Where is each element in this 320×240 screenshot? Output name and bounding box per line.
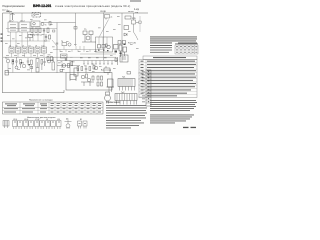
diode D1 bbox=[124, 33, 127, 36]
IF can L5 bbox=[9, 45, 14, 53]
wire vertical bus x70 bbox=[69, 60, 71, 81]
IF can L7 bbox=[22, 45, 27, 53]
page mark bbox=[183, 127, 189, 128]
right column table title bar bbox=[143, 56, 197, 60]
wire vertical bus x122 bbox=[121, 13, 123, 62]
svg-text:Радиоприёмники: Радиоприёмники bbox=[3, 4, 26, 8]
wire horizontal y41 bbox=[3, 40, 50, 42]
right column paragraph 3 bbox=[150, 115, 194, 124]
right column small table grid bbox=[175, 44, 198, 55]
header smudge bbox=[130, 0, 141, 1]
wire horizontal y65 bbox=[57, 65, 80, 67]
svg-text:Т4: Т4 bbox=[61, 41, 63, 43]
right column text block 1 bbox=[150, 37, 197, 44]
svg-text:Т1: Т1 bbox=[45, 25, 47, 27]
wire horizontal y72 bbox=[5, 72, 66, 74]
wire slant bbox=[52, 40, 57, 50]
resistor R8 bbox=[30, 60, 33, 69]
IF can L6 bbox=[16, 45, 21, 53]
antenna socket cluster bbox=[105, 15, 113, 20]
svg-text:Т2: Т2 bbox=[5, 58, 7, 60]
svg-text:R17 C35: R17 C35 bbox=[128, 43, 137, 45]
transistor T5 stage cluster bbox=[82, 29, 96, 42]
transistor T9 can bbox=[107, 79, 115, 92]
cluster x116 y57 bbox=[115, 57, 118, 65]
wire can drops bbox=[12, 53, 45, 57]
resistor network R25-R27 bbox=[97, 76, 103, 86]
IF can L8 bbox=[29, 45, 34, 53]
resistor R9 bbox=[41, 60, 43, 71]
svg-text:Вых. каскад: Вых. каскад bbox=[101, 70, 112, 72]
detector cluster bbox=[114, 44, 127, 58]
svg-text:Примечания:: Примечания: bbox=[106, 101, 121, 104]
wire risers to frame bbox=[10, 13, 22, 22]
wire horizontal y22 bbox=[41, 22, 76, 24]
connector box X2 bbox=[5, 71, 9, 76]
svg-text:1-му: 1-му bbox=[134, 8, 140, 11]
cluster T4 components bbox=[60, 58, 73, 72]
svg-text:кв: кв bbox=[111, 17, 113, 19]
wire vertical x133 bbox=[134, 13, 139, 40]
electrolytic C20 bbox=[74, 68, 78, 81]
wire vertical bus x103 bbox=[103, 13, 105, 60]
capacitor C33 bbox=[124, 26, 129, 30]
wire horizontal bus y57 bbox=[3, 56, 116, 58]
capacitor C42 bbox=[70, 75, 76, 80]
resistor R6 bbox=[12, 60, 14, 73]
electrolytic C10 bbox=[15, 62, 30, 69]
svg-text:Намоточные данные катушек: Намоточные данные катушек bbox=[27, 117, 55, 119]
switch fragment B1 bbox=[78, 119, 88, 129]
jack fragment Ш1 bbox=[65, 118, 72, 128]
connector marks on left frame bbox=[1, 34, 3, 42]
resistor R16 bbox=[132, 20, 136, 24]
svg-text:схема электрическая принципиал: схема электрическая принципиальная (моде… bbox=[55, 4, 131, 8]
svg-text:кв анл: кв анл bbox=[128, 11, 134, 13]
svg-text:Напряжения на выводах: Напряжения на выводах bbox=[29, 99, 54, 101]
coil fragment L-IV bbox=[35, 119, 45, 129]
svg-text:L1 L2: L1 L2 bbox=[9, 21, 14, 23]
right column small table left bbox=[150, 45, 172, 53]
wire horizontal bus y60 bbox=[57, 61, 118, 65]
main schematic frame bbox=[3, 13, 149, 93]
antenna W1 bbox=[7, 11, 15, 20]
resistor R7 bbox=[20, 60, 22, 69]
ferrite antenna L3 L4 bbox=[19, 21, 30, 33]
node cluster y34 x28 bbox=[28, 35, 33, 42]
resistor cluster R1-R3 C2 bbox=[30, 28, 49, 37]
rect module U1 bbox=[120, 55, 128, 62]
parts row y66-72 bbox=[77, 66, 91, 73]
wire vertical bus x57 bbox=[56, 23, 58, 74]
title text line bbox=[2, 4, 140, 14]
resistor R22 bbox=[127, 72, 131, 75]
right column paragraph 2 bbox=[150, 100, 197, 111]
coil fragment L-III bbox=[24, 119, 34, 129]
capacitor cluster C4 C5 bbox=[44, 34, 51, 43]
IF can L10 bbox=[42, 45, 47, 53]
ferrite antenna L1 L2 bbox=[8, 21, 18, 33]
mixer cluster bbox=[61, 41, 71, 50]
antenna jack X1 bbox=[32, 13, 41, 18]
cluster stage T3 bbox=[47, 57, 53, 64]
svg-text:L3 L4: L3 L4 bbox=[20, 21, 25, 23]
capacitor C8 bbox=[15, 57, 17, 66]
capacitor C6 on bus bbox=[56, 43, 58, 44]
coil fragment L-I bbox=[3, 121, 9, 129]
wires to connector strip bbox=[138, 73, 146, 97]
transistor T7 T8 cluster bbox=[81, 74, 94, 86]
wire horizontal y49.5 bbox=[53, 50, 104, 53]
wire vertical x140 bbox=[139, 16, 141, 32]
notes block bbox=[106, 101, 147, 128]
wire drop x31.5 bbox=[31, 65, 33, 73]
svg-text:Т5: Т5 bbox=[61, 62, 63, 64]
output stage sub-board box bbox=[66, 73, 112, 91]
svg-text:ВЭФ-12-201: ВЭФ-12-201 bbox=[33, 4, 51, 8]
svg-text:В1: В1 bbox=[80, 119, 82, 121]
right column contact table bbox=[139, 60, 197, 98]
svg-text:СВ ДВ: СВ ДВ bbox=[100, 11, 106, 13]
coil fragment L-VI bbox=[57, 119, 62, 129]
svg-text:Т3: Т3 bbox=[22, 63, 24, 65]
IF can L9 bbox=[35, 45, 40, 53]
svg-text:R1 R2 R3 C2: R1 R2 R3 C2 bbox=[30, 35, 43, 37]
speaker Гр1 bbox=[105, 92, 111, 104]
wire vertical bus x75 bbox=[75, 13, 77, 46]
capacitor C11 bbox=[43, 58, 45, 66]
coil fragment L-V bbox=[46, 119, 56, 129]
tuning link diagonal bbox=[100, 20, 109, 37]
wire drops left section bbox=[11, 27, 45, 48]
wire horizontal y28.5 bbox=[6, 28, 57, 30]
box L11 bbox=[61, 54, 68, 58]
potentiometer R9 volume bbox=[36, 59, 39, 73]
UKV unit box bbox=[96, 37, 113, 52]
capacitor C9 bbox=[27, 58, 29, 65]
svg-text:R10: R10 bbox=[51, 60, 54, 62]
transistor T2 bbox=[5, 57, 10, 72]
transistor T1 stage box bbox=[31, 21, 55, 32]
transformer Tp2 bbox=[115, 92, 137, 105]
label row under cans bbox=[6, 55, 51, 71]
transistor T3 bbox=[22, 63, 26, 68]
bottom voltage table bbox=[3, 102, 104, 114]
resistor R15 bbox=[125, 16, 137, 20]
cluster R20 C40 bbox=[104, 66, 110, 75]
transformer Tp1 bbox=[118, 77, 135, 91]
cluster T6 bbox=[92, 64, 98, 70]
potentiometer R10 volume bbox=[51, 57, 55, 70]
node cluster x119 y41 bbox=[118, 41, 137, 45]
capacitor C7 on x75 bbox=[74, 27, 77, 30]
coil fragment L-II bbox=[13, 119, 23, 129]
connector strip X3 bbox=[142, 70, 151, 106]
scattered value labels bbox=[5, 16, 139, 72]
